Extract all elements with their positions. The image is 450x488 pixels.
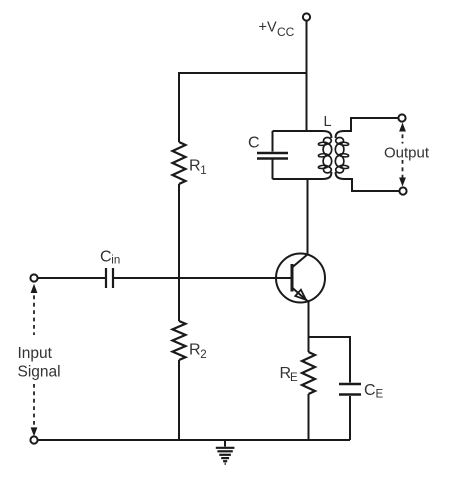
wire RE to rail xyxy=(308,394,310,440)
capacitor C branch wires xyxy=(272,131,274,179)
capacitor C xyxy=(257,153,288,159)
svg-text:Input: Input xyxy=(18,345,53,362)
resistor RE xyxy=(302,352,315,394)
svg-text:+V: +V xyxy=(259,20,277,36)
label CE xyxy=(364,382,384,401)
svg-text:Output: Output xyxy=(384,145,430,162)
bottom rail wire xyxy=(38,439,350,441)
label Output xyxy=(384,145,430,162)
svg-text:2: 2 xyxy=(200,349,206,361)
svg-text:in: in xyxy=(111,255,120,267)
wire top branch to R1 xyxy=(179,73,307,142)
wire input to Cin xyxy=(38,277,105,279)
svg-text:L: L xyxy=(324,114,332,130)
resistor R1 xyxy=(173,142,186,184)
svg-text:Signal: Signal xyxy=(18,364,61,381)
label C xyxy=(248,135,260,152)
terminal input top xyxy=(30,274,37,281)
wire secondary top to output xyxy=(344,118,398,131)
svg-text:CC: CC xyxy=(277,25,295,39)
output dashed indicator arrows xyxy=(399,123,406,187)
wire collector xyxy=(307,179,309,255)
terminal input bottom xyxy=(30,436,37,443)
tank bottom wire xyxy=(273,178,324,180)
ground xyxy=(216,440,235,464)
capacitor CE xyxy=(339,384,361,395)
inductor L primary winding xyxy=(318,131,332,179)
svg-text:C: C xyxy=(364,382,376,399)
resistor R2 xyxy=(173,321,186,360)
inductor L secondary winding xyxy=(335,131,349,179)
label RE xyxy=(280,365,299,384)
input dashed indicator arrows xyxy=(31,284,38,437)
svg-text:R: R xyxy=(189,342,201,359)
terminal +Vcc xyxy=(303,13,310,20)
svg-text:C: C xyxy=(248,135,260,152)
wire Vcc vertical xyxy=(306,21,308,131)
tank top wire xyxy=(273,130,324,132)
label L xyxy=(324,114,332,130)
label +Vcc xyxy=(259,20,295,39)
svg-text:C: C xyxy=(100,249,112,266)
wire emitter xyxy=(308,302,310,353)
wire CE to rail xyxy=(349,396,351,440)
label Cin xyxy=(100,249,120,267)
svg-text:1: 1 xyxy=(200,165,206,177)
label R1 xyxy=(189,158,207,177)
svg-text:E: E xyxy=(290,372,298,384)
label Input Signal xyxy=(18,345,61,381)
wire emitter to CE branch xyxy=(309,337,351,383)
wire R1 to R2 xyxy=(178,184,180,321)
wire Cin to base xyxy=(114,277,292,279)
svg-text:E: E xyxy=(376,389,384,401)
terminal output top xyxy=(398,114,405,121)
wire secondary bottom to output xyxy=(344,179,399,191)
label R2 xyxy=(189,342,207,361)
svg-text:R: R xyxy=(189,158,201,175)
wire R2 to ground rail xyxy=(178,360,180,440)
terminal output bottom xyxy=(399,187,406,194)
capacitor Cin xyxy=(106,268,113,288)
transistor Q1 xyxy=(276,254,325,303)
